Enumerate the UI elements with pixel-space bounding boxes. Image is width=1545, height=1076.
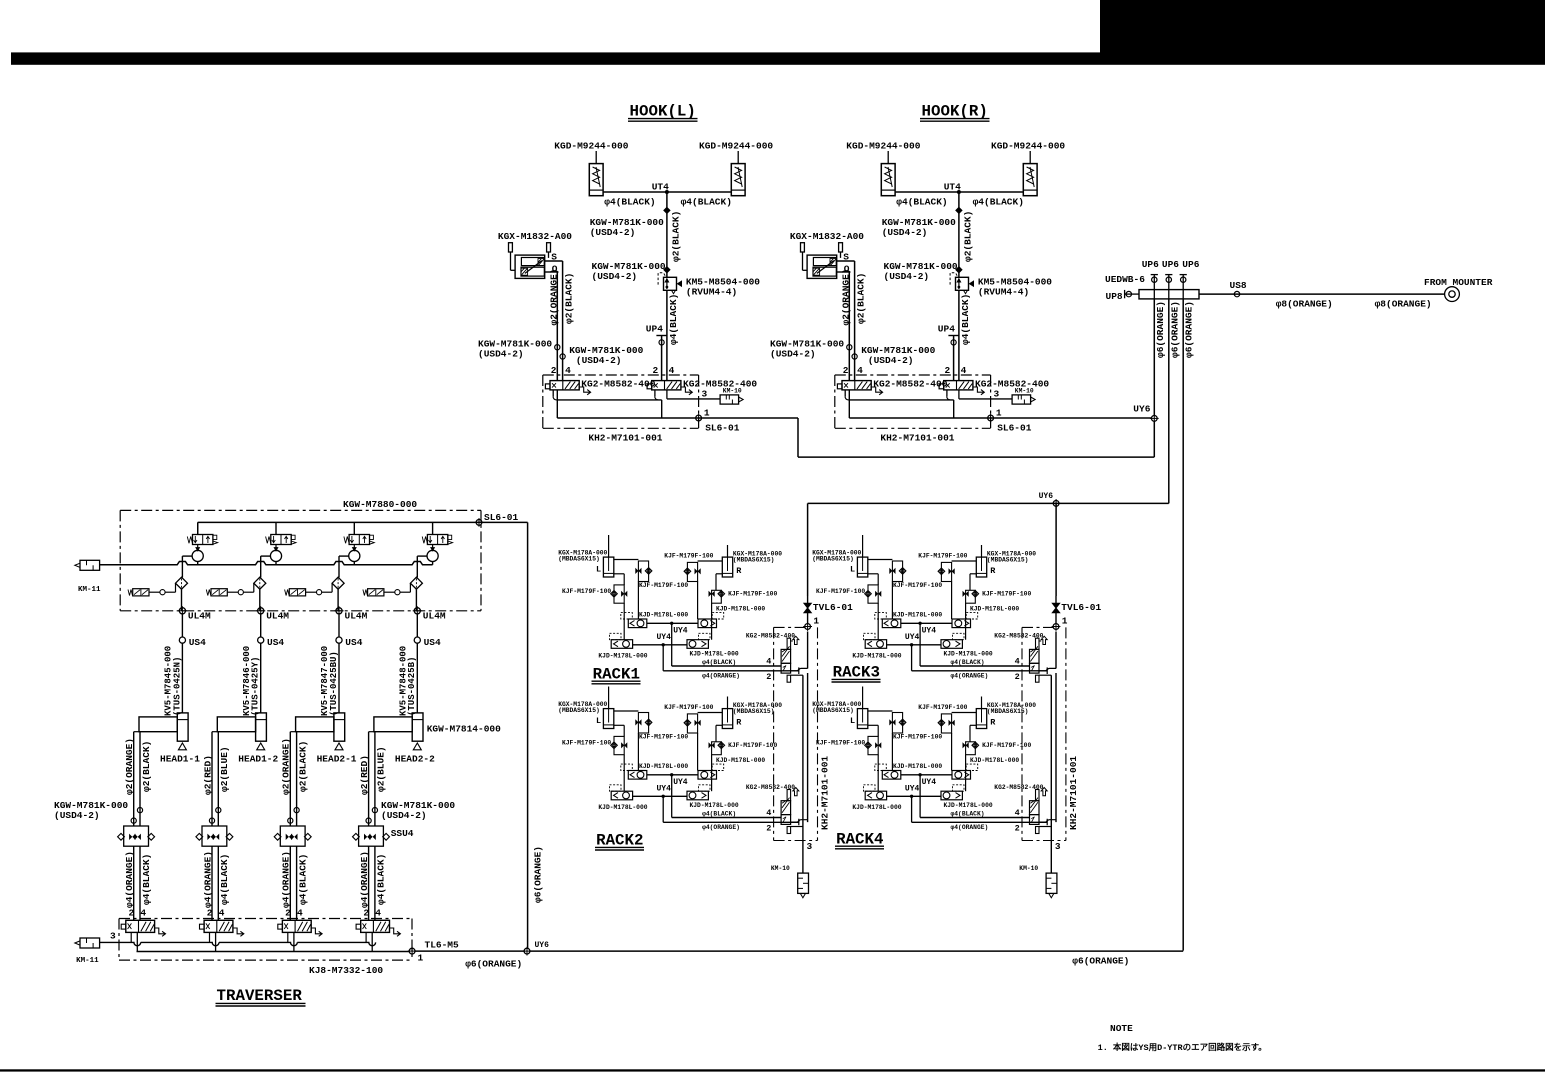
svg-text:TRAVERSER: TRAVERSER	[217, 987, 303, 1005]
svg-text:(TUS-0425N): (TUS-0425N)	[172, 657, 182, 716]
rack3/4 valve manifold	[994, 596, 1101, 898]
svg-text:φ4(ORANGE): φ4(ORANGE)	[281, 851, 292, 908]
svg-text:φ2(RED): φ2(RED)	[359, 755, 370, 795]
svg-text:φ6(ORANGE): φ6(ORANGE)	[1072, 956, 1129, 967]
svg-text:HEAD1-2: HEAD1-2	[238, 754, 278, 765]
svg-text:φ8(ORANGE): φ8(ORANGE)	[1375, 299, 1432, 310]
svg-text:φ6(ORANGE): φ6(ORANGE)	[1169, 301, 1180, 358]
svg-text:SSU4: SSU4	[391, 828, 414, 839]
svg-text:HEAD2-2: HEAD2-2	[395, 754, 435, 765]
svg-text:UP6: UP6	[1162, 259, 1179, 270]
svg-text:(TUS-0425Y): (TUS-0425Y)	[251, 657, 261, 716]
svg-text:φ6(ORANGE): φ6(ORANGE)	[1184, 301, 1195, 358]
svg-text:HOOK(L): HOOK(L)	[630, 103, 696, 121]
node SL6-01 traverser	[476, 520, 482, 526]
svg-text:1: 1	[418, 953, 424, 964]
regulator bus	[100, 562, 433, 565]
svg-text:UP8: UP8	[1106, 291, 1123, 302]
svg-text:φ6(ORANGE): φ6(ORANGE)	[532, 846, 543, 903]
svg-text:φ8(ORANGE): φ8(ORANGE)	[1276, 299, 1333, 310]
drop pipes	[1153, 299, 1155, 416]
svg-text:UL4M: UL4M	[423, 611, 446, 622]
svg-text:UP6: UP6	[1182, 259, 1199, 270]
wire from mounter	[1199, 293, 1445, 295]
node UY6 bottom	[524, 948, 530, 954]
svg-text:(TUS-0425B): (TUS-0425B)	[407, 657, 417, 716]
svg-text:UL4M: UL4M	[266, 611, 289, 622]
svg-text:KM-11: KM-11	[76, 957, 99, 965]
svg-text:φ2(ORANGE): φ2(ORANGE)	[124, 738, 135, 795]
svg-text:(USD4-2): (USD4-2)	[381, 810, 427, 821]
svg-text:UP6: UP6	[1142, 259, 1159, 270]
bottom border line	[0, 1069, 1545, 1071]
rack1/2 valve manifold	[746, 596, 853, 898]
wire rack supply header	[808, 502, 1169, 504]
svg-text:UEDWB-6: UEDWB-6	[1105, 274, 1145, 285]
wire SL6 down	[527, 522, 529, 948]
svg-text:φ4(BLACK): φ4(BLACK)	[297, 854, 308, 905]
svg-text:φ4(ORANGE): φ4(ORANGE)	[124, 851, 135, 908]
wire UY6 to manifold	[530, 950, 1183, 952]
svg-text:UY6: UY6	[1039, 492, 1054, 501]
svg-text:UY6: UY6	[1133, 404, 1150, 415]
svg-text:US4: US4	[189, 637, 206, 648]
svg-text:φ2(ORANGE): φ2(ORANGE)	[281, 738, 292, 795]
svg-text:3: 3	[110, 931, 116, 942]
svg-text:TL6-M5: TL6-M5	[425, 940, 460, 951]
connector FROM MOUNTER	[1449, 291, 1455, 297]
svg-text:φ4(BLACK): φ4(BLACK)	[219, 854, 230, 905]
valve bank box KJ8-M7332-100	[119, 918, 412, 920]
svg-text:HEAD2-1: HEAD2-1	[317, 754, 357, 765]
wire rack3 branch	[1055, 503, 1057, 596]
svg-text:US4: US4	[424, 637, 441, 648]
svg-text:UL4M: UL4M	[188, 611, 211, 622]
svg-text:NOTE: NOTE	[1110, 1023, 1133, 1034]
exhaust bus	[100, 942, 376, 945]
HOOK(R) assembly	[770, 141, 1065, 444]
manifold UEDWB-6	[1139, 290, 1199, 299]
port UP8 fitting	[1124, 290, 1126, 298]
svg-text:φ6(ORANGE): φ6(ORANGE)	[1155, 301, 1166, 358]
svg-text:φ2(BLACK): φ2(BLACK)	[297, 741, 308, 792]
wire hookL supply	[699, 417, 798, 419]
rack2 cluster	[558, 687, 782, 812]
HOOK(L) assembly	[478, 141, 773, 444]
svg-text:HOOK(R): HOOK(R)	[922, 103, 988, 121]
rack1 cluster	[558, 535, 782, 660]
svg-text:φ2(BLACK): φ2(BLACK)	[141, 741, 152, 792]
title block black banner	[1100, 0, 1545, 53]
filter KM-11 bottom	[80, 938, 100, 948]
svg-text:φ2(BLUE): φ2(BLUE)	[219, 746, 230, 792]
svg-text:(TUS-0425BU): (TUS-0425BU)	[329, 651, 339, 716]
wire hookR to UY6	[991, 417, 1152, 419]
svg-text:1. 本図はYS用D-YTRのエア回路図を示す。: 1. 本図はYS用D-YTRのエア回路図を示す。	[1098, 1042, 1267, 1053]
node UY6 top	[1151, 416, 1157, 422]
svg-text:US4: US4	[267, 637, 284, 648]
supply bus	[198, 521, 528, 523]
svg-text:φ2(BLUE): φ2(BLUE)	[376, 746, 387, 792]
rack4 cluster	[812, 687, 1036, 812]
svg-text:φ4(BLACK): φ4(BLACK)	[141, 854, 152, 905]
svg-text:KM-11: KM-11	[78, 586, 101, 594]
svg-text:φ4(ORANGE): φ4(ORANGE)	[202, 851, 213, 908]
svg-text:SL6-01: SL6-01	[484, 512, 519, 523]
svg-text:US8: US8	[1230, 280, 1247, 291]
svg-text:US4: US4	[345, 637, 362, 648]
svg-text:KJ8-M7332-100: KJ8-M7332-100	[309, 965, 383, 976]
supply bus TL6-M5	[137, 951, 410, 953]
svg-text:UY6: UY6	[535, 941, 550, 950]
rack3 cluster	[812, 535, 1036, 660]
svg-text:φ4(ORANGE): φ4(ORANGE)	[359, 851, 370, 908]
svg-text:UL4M: UL4M	[345, 611, 368, 622]
svg-text:KGW-M7880-000: KGW-M7880-000	[343, 499, 417, 510]
svg-text:(USD4-2): (USD4-2)	[54, 810, 100, 821]
svg-text:FROM MOUNTER: FROM MOUNTER	[1424, 277, 1493, 288]
svg-text:KGW-M7814-000: KGW-M7814-000	[427, 724, 501, 735]
svg-text:HEAD1-1: HEAD1-1	[160, 754, 200, 765]
svg-text:φ6(ORANGE): φ6(ORANGE)	[465, 959, 522, 970]
head units	[118, 713, 189, 952]
filter KM-11 top	[80, 560, 100, 570]
node UY6 mid	[1053, 501, 1059, 507]
svg-text:φ2(RED): φ2(RED)	[202, 755, 213, 795]
svg-text:φ4(BLACK): φ4(BLACK)	[376, 854, 387, 905]
